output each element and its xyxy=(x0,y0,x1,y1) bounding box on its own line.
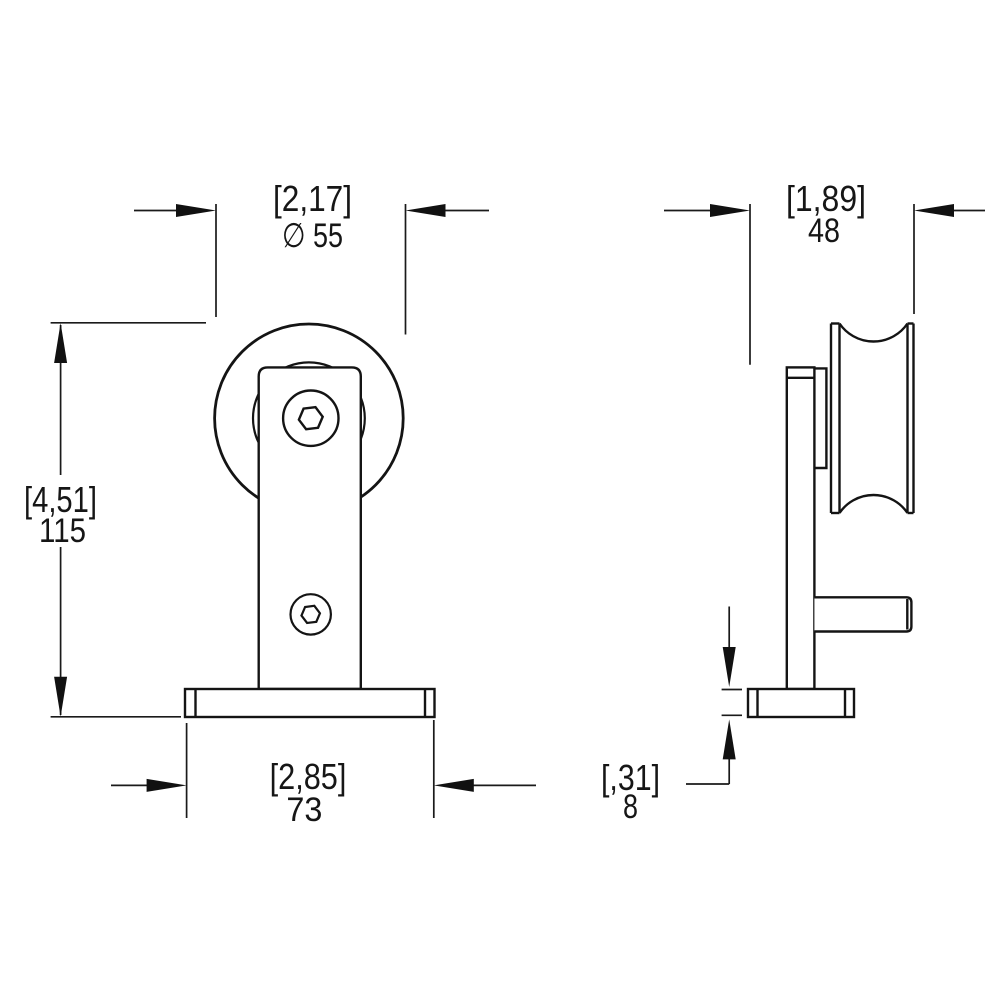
svg-text:115: 115 xyxy=(39,512,86,550)
svg-text:73: 73 xyxy=(286,791,322,829)
svg-text:8: 8 xyxy=(623,788,638,826)
svg-text:[2,17]: [2,17] xyxy=(273,178,352,219)
svg-text:∅ 55: ∅ 55 xyxy=(282,217,343,255)
svg-text:48: 48 xyxy=(808,212,840,250)
